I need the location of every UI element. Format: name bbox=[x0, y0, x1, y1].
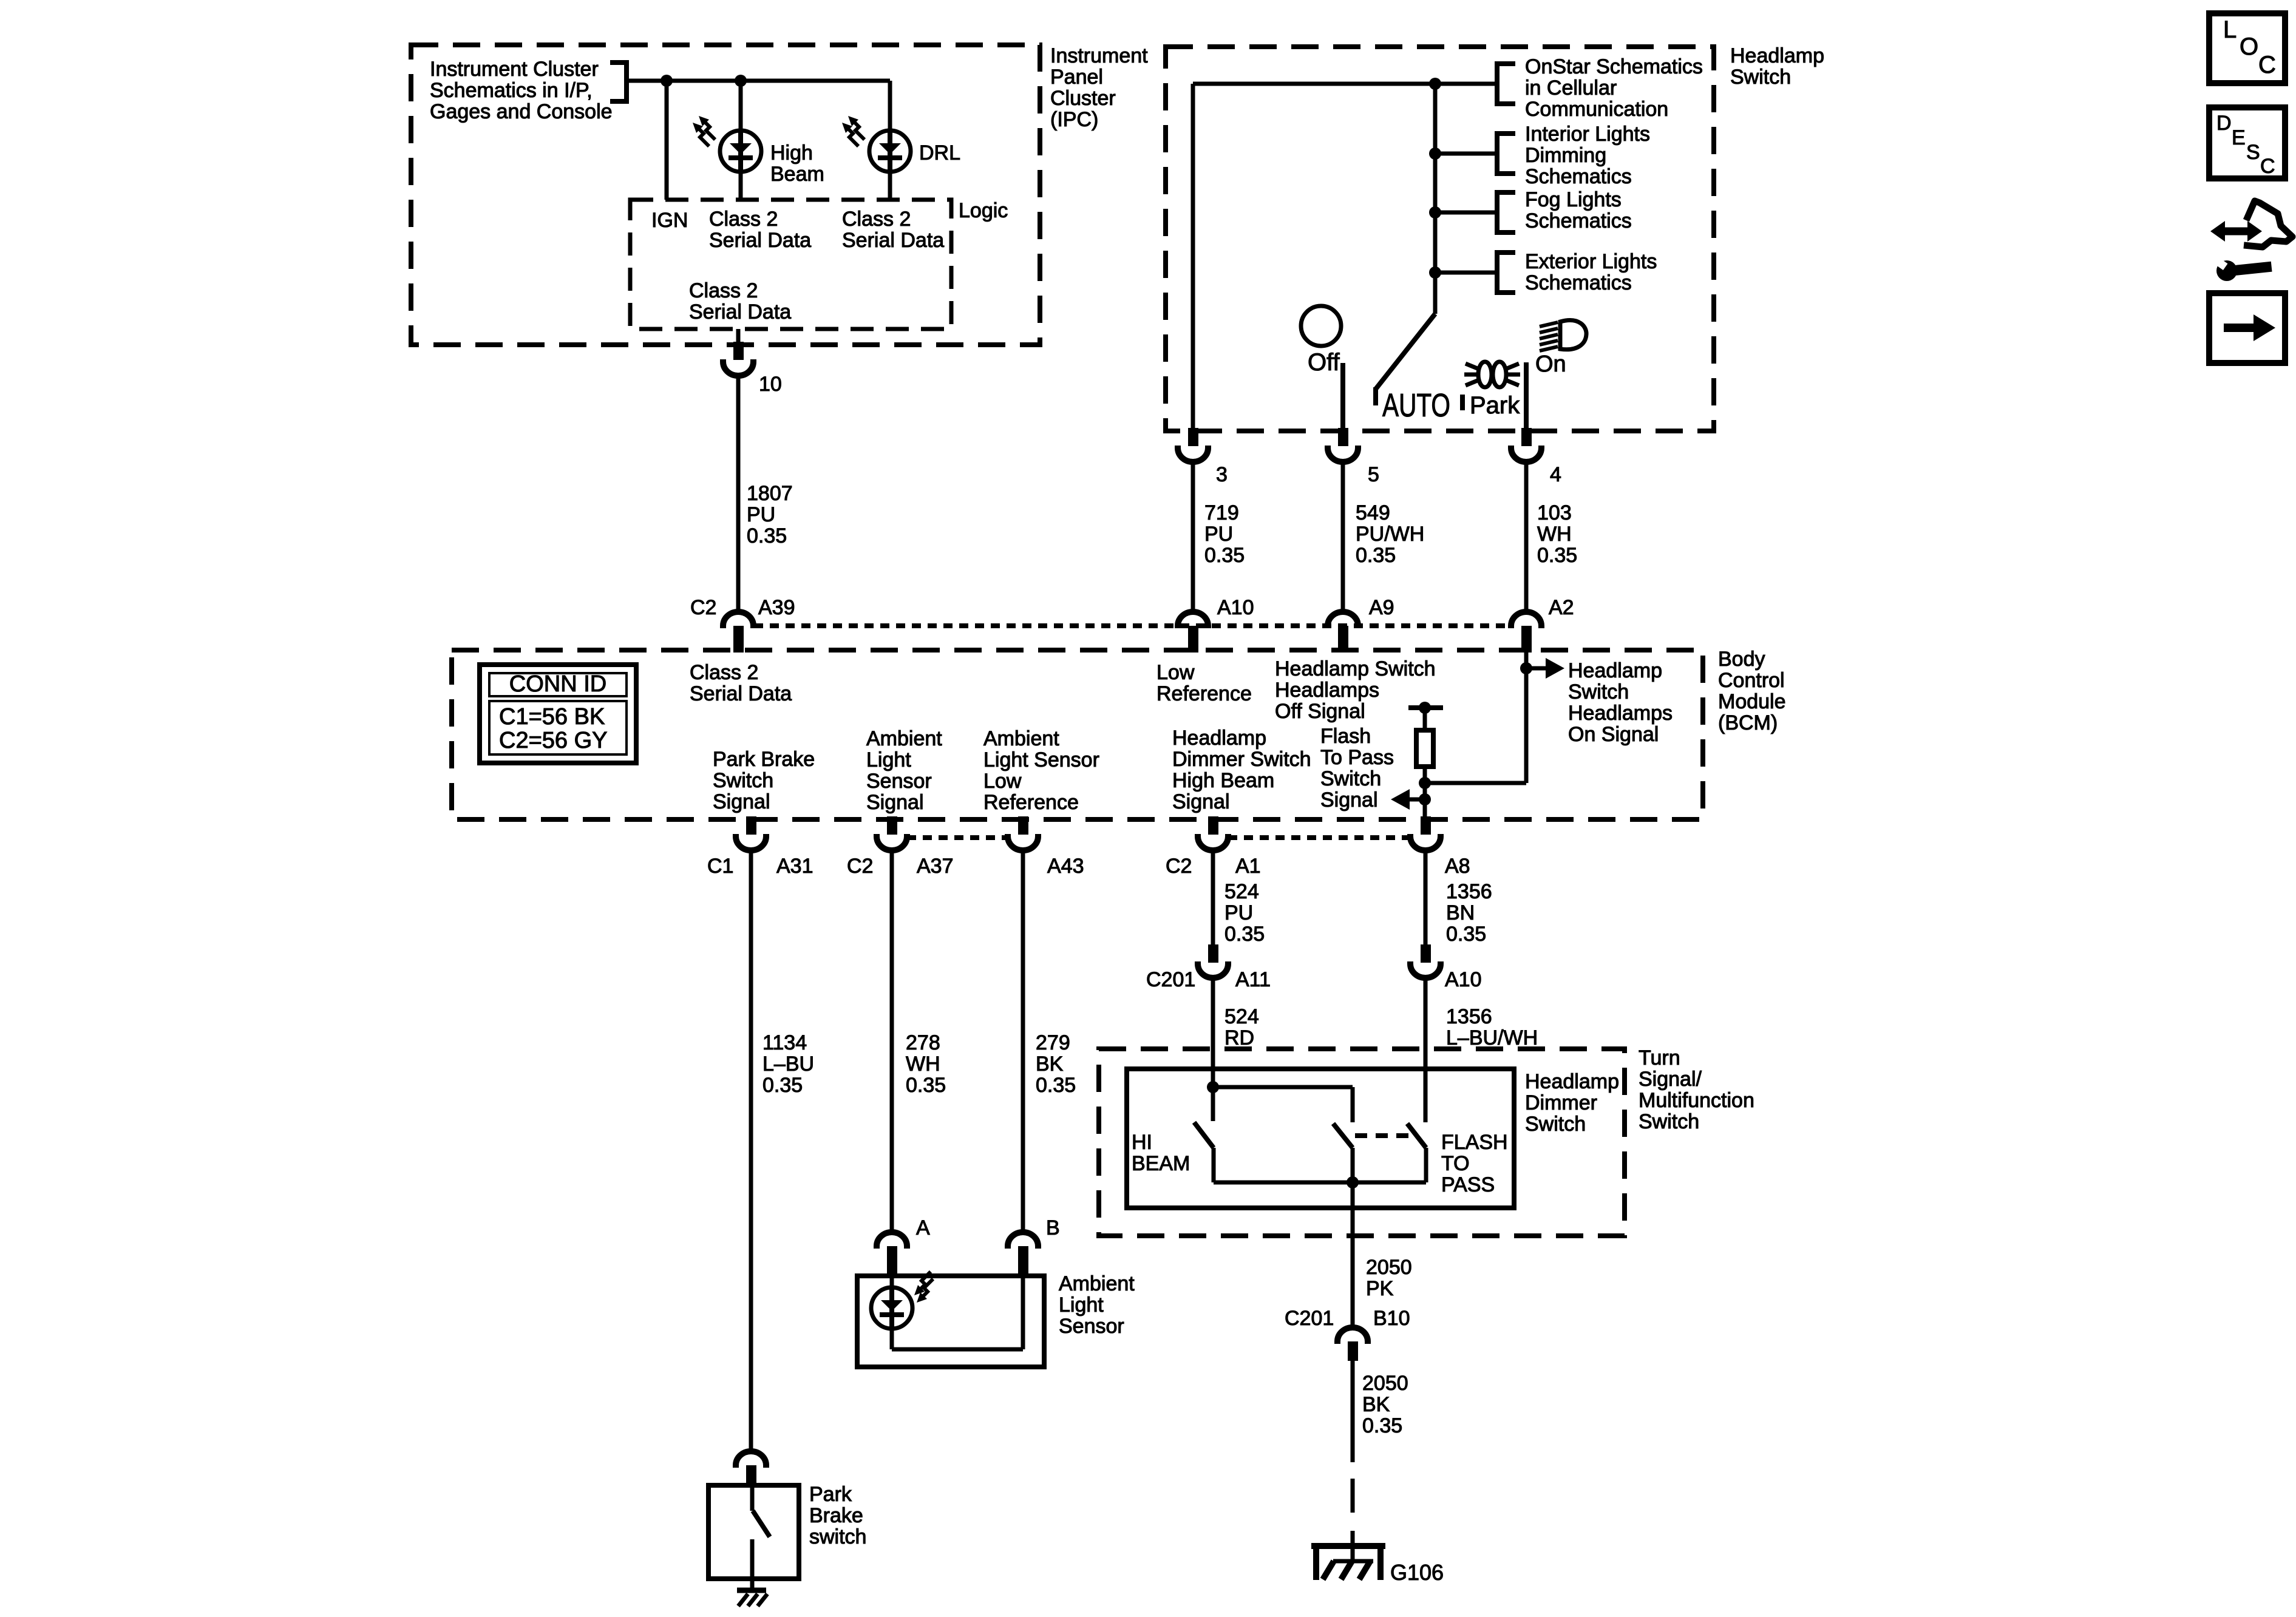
svg-text:Switch: Switch bbox=[1320, 767, 1381, 790]
svg-text:Beam: Beam bbox=[770, 163, 824, 186]
svg-text:BEAM: BEAM bbox=[1132, 1152, 1190, 1175]
svg-text:Schematics: Schematics bbox=[1525, 209, 1632, 232]
svg-text:3: 3 bbox=[1216, 463, 1228, 486]
svg-text:Gages and Console: Gages and Console bbox=[430, 100, 613, 123]
svg-text:C2: C2 bbox=[1166, 855, 1192, 878]
svg-text:Signal: Signal bbox=[713, 790, 770, 813]
svg-text:Communication: Communication bbox=[1525, 98, 1668, 121]
svg-text:Signal/: Signal/ bbox=[1639, 1068, 1702, 1091]
svg-text:Logic: Logic bbox=[959, 199, 1008, 222]
svg-text:PK: PK bbox=[1366, 1277, 1394, 1300]
svg-text:549: 549 bbox=[1356, 501, 1390, 524]
svg-text:C201: C201 bbox=[1285, 1307, 1334, 1330]
svg-text:On: On bbox=[1535, 351, 1566, 377]
svg-text:Switch: Switch bbox=[1730, 66, 1791, 89]
svg-text:Ambient: Ambient bbox=[983, 727, 1059, 750]
svg-text:Serial Data: Serial Data bbox=[709, 229, 811, 252]
svg-text:C: C bbox=[2258, 52, 2276, 78]
svg-text:0.35: 0.35 bbox=[1446, 923, 1486, 946]
svg-text:C201: C201 bbox=[1146, 968, 1195, 991]
svg-text:1134: 1134 bbox=[763, 1031, 807, 1054]
svg-text:B: B bbox=[1046, 1216, 1060, 1239]
svg-text:Signal: Signal bbox=[1172, 790, 1230, 813]
svg-text:A10: A10 bbox=[1445, 968, 1482, 991]
svg-text:B10: B10 bbox=[1373, 1307, 1410, 1330]
svg-text:A10: A10 bbox=[1217, 596, 1254, 619]
svg-text:0.35: 0.35 bbox=[1036, 1074, 1076, 1097]
svg-text:Serial Data: Serial Data bbox=[690, 682, 792, 705]
svg-text:1356: 1356 bbox=[1446, 1005, 1492, 1028]
svg-text:CONN ID: CONN ID bbox=[509, 671, 606, 697]
svg-text:Turn: Turn bbox=[1639, 1046, 1680, 1070]
svg-text:Dimmer Switch: Dimmer Switch bbox=[1172, 748, 1311, 771]
svg-text:L–BU: L–BU bbox=[763, 1053, 814, 1076]
svg-text:PU: PU bbox=[1224, 901, 1253, 924]
svg-text:Switch: Switch bbox=[713, 769, 773, 792]
svg-text:A37: A37 bbox=[917, 855, 954, 878]
svg-text:G106: G106 bbox=[1390, 1560, 1444, 1585]
svg-text:DRL: DRL bbox=[919, 141, 960, 164]
svg-text:HI: HI bbox=[1132, 1131, 1152, 1154]
svg-text:A2: A2 bbox=[1549, 596, 1574, 619]
svg-text:Signal: Signal bbox=[1320, 788, 1378, 812]
svg-text:PU: PU bbox=[1204, 523, 1233, 546]
svg-text:E: E bbox=[2232, 126, 2246, 149]
svg-text:Brake: Brake bbox=[809, 1504, 863, 1527]
svg-text:Light Sensor: Light Sensor bbox=[983, 748, 1099, 771]
svg-text:Headlamp Switch: Headlamp Switch bbox=[1275, 657, 1436, 680]
svg-text:Reference: Reference bbox=[1156, 682, 1252, 705]
svg-text:0.35: 0.35 bbox=[1356, 544, 1396, 567]
svg-text:A8: A8 bbox=[1445, 855, 1470, 878]
svg-text:switch: switch bbox=[809, 1525, 866, 1548]
svg-text:A: A bbox=[916, 1216, 930, 1239]
svg-text:A31: A31 bbox=[776, 855, 813, 878]
svg-text:C1: C1 bbox=[707, 855, 733, 878]
svg-text:S: S bbox=[2246, 141, 2260, 164]
svg-text:Headlamp: Headlamp bbox=[1730, 44, 1824, 67]
svg-text:Reference: Reference bbox=[983, 791, 1079, 814]
svg-text:Instrument Cluster: Instrument Cluster bbox=[430, 58, 599, 81]
svg-text:Class 2: Class 2 bbox=[842, 208, 911, 231]
svg-text:TO: TO bbox=[1441, 1152, 1470, 1175]
svg-text:Cluster: Cluster bbox=[1050, 87, 1116, 110]
svg-text:10: 10 bbox=[759, 373, 782, 396]
svg-text:Multifunction: Multifunction bbox=[1639, 1089, 1754, 1112]
svg-text:2050: 2050 bbox=[1362, 1372, 1408, 1395]
svg-text:AUTO: AUTO bbox=[1382, 387, 1450, 424]
svg-text:To Pass: To Pass bbox=[1320, 746, 1394, 769]
svg-text:Module: Module bbox=[1718, 690, 1786, 713]
svg-text:WH: WH bbox=[906, 1053, 940, 1076]
svg-text:OnStar Schematics: OnStar Schematics bbox=[1525, 55, 1703, 78]
svg-text:Low: Low bbox=[1156, 661, 1195, 684]
svg-text:Schematics in I/P,: Schematics in I/P, bbox=[430, 79, 593, 102]
svg-text:Body: Body bbox=[1718, 648, 1765, 671]
svg-text:A9: A9 bbox=[1369, 596, 1394, 619]
svg-text:0.35: 0.35 bbox=[1204, 544, 1245, 567]
svg-text:103: 103 bbox=[1537, 501, 1572, 524]
svg-text:Headlamps: Headlamps bbox=[1568, 702, 1673, 725]
svg-text:Instrument: Instrument bbox=[1050, 44, 1148, 67]
svg-text:Interior Lights: Interior Lights bbox=[1525, 123, 1650, 146]
svg-text:2050: 2050 bbox=[1366, 1256, 1412, 1279]
svg-text:Dimmer: Dimmer bbox=[1525, 1091, 1597, 1114]
svg-text:BK: BK bbox=[1362, 1393, 1390, 1416]
svg-text:WH: WH bbox=[1537, 523, 1572, 546]
svg-text:524: 524 bbox=[1224, 1005, 1259, 1028]
svg-text:Park Brake: Park Brake bbox=[713, 748, 815, 771]
svg-text:4: 4 bbox=[1550, 463, 1561, 486]
svg-text:in Cellular: in Cellular bbox=[1525, 76, 1617, 100]
svg-text:C2: C2 bbox=[690, 596, 716, 619]
svg-text:5: 5 bbox=[1368, 463, 1379, 486]
svg-text:0.35: 0.35 bbox=[747, 524, 787, 547]
svg-text:0.35: 0.35 bbox=[1537, 544, 1577, 567]
svg-text:Park: Park bbox=[1470, 392, 1520, 419]
svg-text:Class 2: Class 2 bbox=[709, 208, 778, 231]
svg-text:Off: Off bbox=[1308, 349, 1340, 376]
svg-text:PU/WH: PU/WH bbox=[1356, 523, 1424, 546]
svg-text:278: 278 bbox=[906, 1031, 940, 1054]
svg-text:1356: 1356 bbox=[1446, 880, 1492, 903]
svg-text:Class 2: Class 2 bbox=[690, 661, 758, 684]
svg-text:A1: A1 bbox=[1235, 855, 1261, 878]
svg-text:Headlamp: Headlamp bbox=[1525, 1070, 1619, 1093]
svg-text:FLASH: FLASH bbox=[1441, 1131, 1508, 1154]
svg-text:High: High bbox=[770, 141, 813, 164]
svg-text:Fog Lights: Fog Lights bbox=[1525, 188, 1622, 211]
svg-text:Ambient: Ambient bbox=[1059, 1272, 1135, 1295]
svg-text:0.35: 0.35 bbox=[1224, 923, 1265, 946]
svg-text:Signal: Signal bbox=[866, 791, 924, 814]
svg-text:Low: Low bbox=[983, 770, 1022, 793]
svg-text:Sensor: Sensor bbox=[866, 770, 932, 793]
svg-text:C2: C2 bbox=[847, 855, 873, 878]
svg-text:(BCM): (BCM) bbox=[1718, 711, 1778, 734]
svg-text:524: 524 bbox=[1224, 880, 1259, 903]
svg-text:0.35: 0.35 bbox=[906, 1074, 946, 1097]
svg-text:Light: Light bbox=[866, 748, 911, 771]
svg-text:L: L bbox=[2223, 16, 2237, 43]
svg-text:A11: A11 bbox=[1235, 968, 1271, 991]
svg-text:High Beam: High Beam bbox=[1172, 769, 1274, 792]
svg-text:IGN: IGN bbox=[651, 209, 688, 232]
svg-text:Control: Control bbox=[1718, 669, 1785, 692]
svg-text:BN: BN bbox=[1446, 901, 1475, 924]
svg-text:1807: 1807 bbox=[747, 482, 793, 505]
svg-text:Class 2: Class 2 bbox=[689, 279, 758, 302]
svg-text:0.35: 0.35 bbox=[763, 1074, 803, 1097]
svg-text:Headlamp: Headlamp bbox=[1172, 727, 1266, 750]
svg-text:Exterior Lights: Exterior Lights bbox=[1525, 250, 1657, 273]
svg-text:Light: Light bbox=[1059, 1293, 1104, 1317]
svg-text:A39: A39 bbox=[758, 596, 795, 619]
svg-text:Switch: Switch bbox=[1525, 1113, 1586, 1136]
svg-text:BK: BK bbox=[1036, 1053, 1064, 1076]
svg-text:Flash: Flash bbox=[1320, 725, 1371, 748]
svg-text:0.35: 0.35 bbox=[1362, 1414, 1402, 1437]
svg-text:PU: PU bbox=[747, 503, 775, 526]
svg-text:Switch: Switch bbox=[1568, 680, 1629, 703]
svg-text:Dimming: Dimming bbox=[1525, 144, 1606, 167]
svg-text:Schematics: Schematics bbox=[1525, 165, 1632, 188]
svg-text:C1=56 BK: C1=56 BK bbox=[499, 704, 605, 730]
svg-text:Switch: Switch bbox=[1639, 1110, 1699, 1133]
svg-text:Serial Data: Serial Data bbox=[842, 229, 944, 252]
svg-text:On Signal: On Signal bbox=[1568, 723, 1659, 746]
svg-text:C: C bbox=[2260, 155, 2275, 178]
svg-text:Schematics: Schematics bbox=[1525, 271, 1632, 294]
svg-text:Ambient: Ambient bbox=[866, 727, 942, 750]
svg-text:A43: A43 bbox=[1047, 855, 1084, 878]
svg-text:279: 279 bbox=[1036, 1031, 1070, 1054]
svg-text:RD: RD bbox=[1224, 1026, 1254, 1049]
svg-text:Off Signal: Off Signal bbox=[1275, 700, 1365, 723]
svg-text:L–BU/WH: L–BU/WH bbox=[1446, 1026, 1538, 1049]
svg-text:O: O bbox=[2240, 33, 2258, 60]
svg-text:Headlamps: Headlamps bbox=[1275, 679, 1379, 702]
svg-text:D: D bbox=[2216, 112, 2232, 135]
svg-text:Panel: Panel bbox=[1050, 66, 1103, 89]
svg-text:Sensor: Sensor bbox=[1059, 1315, 1124, 1338]
svg-text:(IPC): (IPC) bbox=[1050, 108, 1098, 131]
svg-text:PASS: PASS bbox=[1441, 1173, 1495, 1196]
svg-text:Headlamp: Headlamp bbox=[1568, 659, 1662, 682]
svg-text:Park: Park bbox=[809, 1483, 852, 1506]
svg-text:719: 719 bbox=[1204, 501, 1239, 524]
svg-text:C2=56 GY: C2=56 GY bbox=[499, 728, 608, 753]
svg-text:Serial Data: Serial Data bbox=[689, 300, 791, 324]
